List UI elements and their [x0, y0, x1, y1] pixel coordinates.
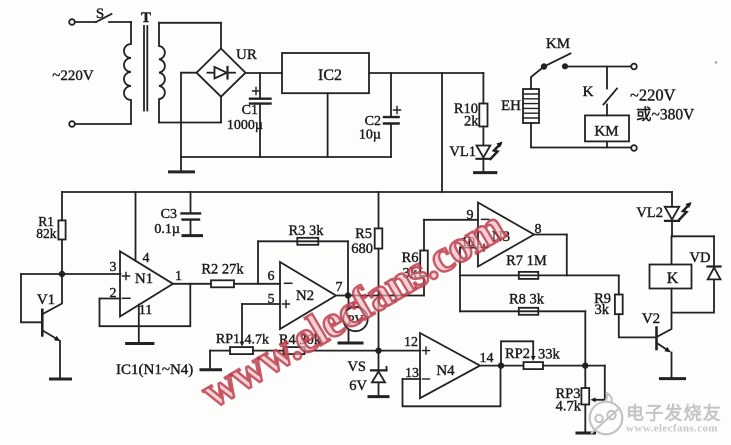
svg-text:680: 680 — [351, 241, 373, 257]
svg-text:6: 6 — [268, 269, 275, 284]
svg-text:13: 13 — [405, 366, 419, 381]
svg-text:14: 14 — [480, 351, 494, 366]
svg-text:V2: V2 — [642, 311, 660, 327]
svg-text:K: K — [583, 84, 594, 100]
svg-text:KM: KM — [546, 36, 570, 52]
svg-text:KM: KM — [594, 124, 618, 140]
svg-text:2k: 2k — [464, 114, 479, 130]
svg-text:C1: C1 — [242, 103, 258, 118]
svg-text:K: K — [667, 270, 679, 287]
svg-text:www.elecfans.com: www.elecfans.com — [626, 423, 718, 435]
svg-text:UR: UR — [236, 47, 257, 63]
svg-text:N1: N1 — [135, 271, 153, 287]
svg-text:0.1µ: 0.1µ — [154, 222, 180, 237]
svg-text:11: 11 — [139, 303, 152, 318]
svg-text:或~380V: 或~380V — [636, 106, 695, 124]
svg-text:4: 4 — [143, 251, 150, 266]
svg-text:R3 3k: R3 3k — [288, 223, 324, 239]
svg-text:N2: N2 — [296, 288, 314, 304]
svg-text:~220V: ~220V — [630, 86, 676, 105]
svg-text:6V: 6V — [349, 378, 367, 394]
svg-text:1: 1 — [175, 269, 182, 284]
svg-text:VL2: VL2 — [636, 205, 663, 221]
svg-text:R7 1M: R7 1M — [506, 253, 547, 269]
svg-text:S: S — [96, 6, 104, 22]
svg-text:RP2: RP2 — [505, 346, 530, 362]
svg-text:EH: EH — [501, 98, 521, 114]
svg-text:10µ: 10µ — [359, 128, 381, 143]
svg-text:2: 2 — [110, 286, 117, 301]
svg-text:VL1: VL1 — [449, 144, 476, 160]
svg-text:3: 3 — [110, 260, 117, 275]
svg-text:V1: V1 — [37, 292, 55, 308]
svg-text:82k: 82k — [36, 226, 57, 241]
svg-text:1000µ: 1000µ — [227, 118, 263, 133]
svg-text:8: 8 — [535, 222, 542, 237]
svg-text:电子发烧友: 电子发烧友 — [626, 403, 722, 424]
svg-text:R5: R5 — [355, 226, 372, 242]
svg-text:5: 5 — [268, 292, 275, 307]
svg-text:R8 3k: R8 3k — [509, 292, 545, 308]
svg-text:~220V: ~220V — [52, 68, 94, 84]
svg-text:4.7k: 4.7k — [556, 399, 582, 415]
svg-text:33k: 33k — [538, 347, 561, 363]
svg-text:3k: 3k — [595, 302, 610, 318]
svg-text:IC1(N1~N4): IC1(N1~N4) — [116, 362, 193, 378]
svg-text:C3: C3 — [161, 207, 177, 222]
svg-text:R2 27k: R2 27k — [201, 262, 244, 278]
svg-text:12: 12 — [404, 335, 418, 350]
svg-text:RP1: RP1 — [216, 332, 240, 347]
svg-text:IC2: IC2 — [318, 67, 342, 84]
svg-text:VD: VD — [690, 250, 711, 266]
svg-text:N4: N4 — [436, 363, 455, 379]
svg-text:VS: VS — [347, 359, 366, 375]
svg-text:T: T — [141, 10, 151, 26]
